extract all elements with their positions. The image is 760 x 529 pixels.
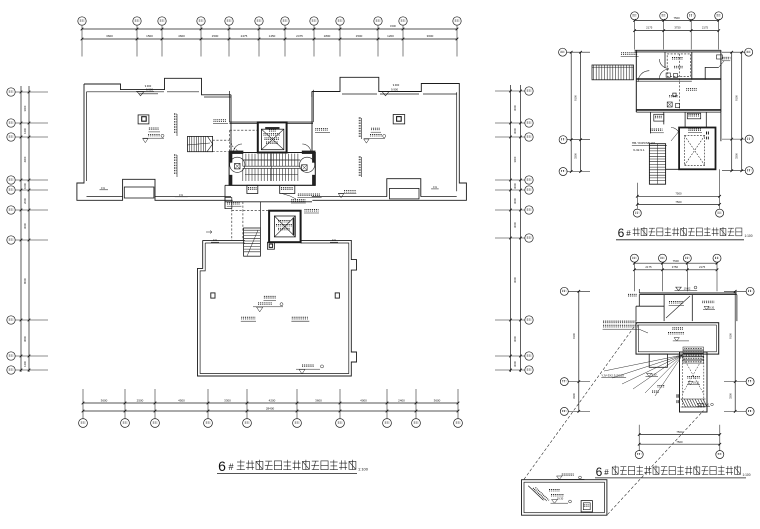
- svg-text:3000: 3000: [513, 277, 517, 283]
- svg-text:3600: 3600: [427, 34, 434, 38]
- plan3 top axis: [630, 254, 721, 291]
- riser label upper left wing: [174, 114, 177, 136]
- svg-text:1:100: 1:100: [745, 234, 753, 238]
- plan2 parapet and note: [621, 50, 721, 56]
- svg-text:3300: 3300: [572, 393, 576, 399]
- svg-text:3000: 3000: [513, 183, 517, 189]
- plan2 main walls: [636, 50, 721, 112]
- plan3 small room below slab: [649, 354, 667, 367]
- svg-text:3000: 3000: [513, 105, 517, 111]
- riser label upper right wing: [359, 118, 362, 139]
- plan3 main slab: [636, 323, 719, 354]
- svg-text:9.900: 9.900: [145, 84, 152, 88]
- svg-text:9100: 9100: [574, 95, 578, 101]
- plan2 interior stair: [649, 144, 679, 185]
- svg-text:HB-YD25/SB W1: HB-YD25/SB W1: [632, 141, 656, 145]
- cable notes right of core: [282, 194, 322, 214]
- plan3 bottom level note: [697, 403, 714, 406]
- svg-text:4500: 4500: [178, 398, 185, 402]
- plan2 right axis: [722, 48, 753, 175]
- svg-text:3000: 3000: [513, 336, 517, 342]
- plan2 title: [616, 226, 753, 240]
- svg-text:7500: 7500: [673, 16, 680, 20]
- plan2 lower elevator shaft: [679, 128, 715, 170]
- detail level note: [549, 490, 571, 504]
- svg-text:1:100: 1:100: [743, 473, 751, 477]
- svg-text:3000: 3000: [513, 198, 517, 204]
- svg-text:1000: 1000: [23, 183, 27, 189]
- svg-text:9100: 9100: [572, 333, 576, 339]
- svg-text:1200: 1200: [387, 34, 394, 38]
- svg-text:9.900: 9.900: [391, 87, 398, 91]
- lower elevator shaft: [269, 211, 301, 243]
- plan2 bottom dims: [633, 169, 723, 217]
- svg-text:19.62: 19.62: [684, 286, 691, 290]
- pilasters: [211, 293, 340, 298]
- plan2 water tank room: [659, 54, 690, 79]
- core north walls: [229, 90, 313, 153]
- svg-text:2500: 2500: [137, 398, 144, 402]
- svg-text:19.30: 19.30: [703, 403, 710, 406]
- svg-text:6-32.9.1: 6-32.9.1: [633, 148, 645, 152]
- svg-text:3000: 3000: [23, 105, 27, 111]
- stair flights hatch: [243, 154, 300, 181]
- svg-text:1450: 1450: [269, 34, 276, 38]
- roof level marker left wing: [136, 84, 158, 96]
- smoke detectors in stairwell: [230, 157, 315, 172]
- top dimension values: [106, 24, 434, 38]
- plan3 left axis: [560, 287, 590, 415]
- plan3 callout stack: [683, 347, 704, 363]
- left axis bubbles and dimension chain: [7, 86, 48, 374]
- upper elevator shaft: [258, 122, 287, 152]
- svg-text:YJV-3X2.5 SC25: YJV-3X2.5 SC25: [601, 373, 624, 377]
- svg-text:3000: 3000: [513, 128, 517, 134]
- svg-text:1500: 1500: [146, 34, 153, 38]
- svg-text:3600: 3600: [315, 398, 322, 402]
- svg-text:3000: 3000: [513, 361, 517, 367]
- svg-text:2175: 2175: [646, 26, 653, 30]
- level note right wing bottom: [338, 191, 356, 198]
- svg-text:4600: 4600: [178, 34, 185, 38]
- svg-text:#: #: [604, 468, 609, 477]
- dashed connectors to lower roof: [232, 202, 269, 241]
- detail box frame: [522, 480, 607, 516]
- roof drain right wing: [393, 115, 405, 124]
- level note left wing: [143, 128, 164, 143]
- svg-text:9.900: 9.900: [393, 83, 400, 87]
- svg-text:28400: 28400: [266, 406, 275, 410]
- plan2 cable label: [632, 141, 667, 152]
- svg-text:1500: 1500: [356, 34, 363, 38]
- top axis line and grid bubbles: [78, 17, 461, 57]
- svg-text:6: 6: [218, 458, 226, 474]
- svg-text:7500: 7500: [675, 192, 682, 196]
- rooms below stairwell: [225, 185, 315, 208]
- left wing outline: [77, 78, 233, 200]
- svg-text:19.30: 19.30: [557, 496, 564, 500]
- note left of core: [227, 202, 242, 206]
- plan3 wing level note: [687, 377, 700, 385]
- roof level marker right wing: [381, 83, 400, 96]
- plan3 title: [595, 465, 751, 479]
- right axis bubbles and dimension chain: [495, 85, 533, 374]
- svg-text:19.30: 19.30: [708, 306, 715, 309]
- svg-text:7500: 7500: [676, 440, 683, 444]
- svg-text:2400: 2400: [398, 398, 405, 402]
- machine-room roof outline: [198, 240, 357, 376]
- roof drain left wing: [138, 115, 149, 124]
- plan3 bottom dims: [635, 425, 724, 459]
- svg-text:3000: 3000: [23, 223, 27, 229]
- plan3 upper rooms: [636, 295, 737, 322]
- right wing outline: [312, 77, 467, 200]
- svg-text:3750: 3750: [672, 265, 679, 269]
- svg-text:8000: 8000: [23, 278, 27, 284]
- plan3 right axis: [724, 287, 754, 415]
- svg-text:1:100: 1:100: [358, 467, 369, 472]
- detail duct with slanted label: [528, 486, 549, 501]
- svg-text:6: 6: [596, 465, 603, 479]
- riser label lower right wing: [359, 157, 362, 177]
- svg-text:1800: 1800: [324, 34, 331, 38]
- stair to lower roof: [206, 228, 260, 256]
- roof access stair left wing: [187, 136, 213, 151]
- bottom axis bubbles and dimension chain: [79, 389, 463, 427]
- svg-text:3000: 3000: [513, 156, 517, 162]
- plan2 top axis: [631, 12, 723, 50]
- svg-text:#: #: [228, 462, 233, 472]
- stairwell walls: [229, 151, 315, 186]
- stairwell door swings: [231, 141, 311, 153]
- slope note right wing: [431, 185, 439, 189]
- plan3 leader fan: [601, 355, 682, 396]
- svg-text:3600: 3600: [434, 398, 441, 402]
- plan3 wing hatch strip: [677, 396, 708, 407]
- plan2 annotations: [650, 128, 702, 142]
- detail device box: [581, 501, 592, 512]
- svg-text:3000: 3000: [513, 222, 517, 228]
- svg-text:3300: 3300: [729, 393, 733, 399]
- svg-text:1400: 1400: [23, 361, 27, 367]
- svg-text:3600: 3600: [101, 398, 108, 402]
- svg-text:1400: 1400: [23, 128, 27, 134]
- detail top level note: [556, 474, 585, 479]
- plan2 fan room: [705, 55, 730, 80]
- svg-text:2175: 2175: [645, 265, 652, 269]
- svg-text:4300: 4300: [23, 156, 27, 162]
- detail reference dashed lines: [524, 323, 704, 515]
- zone labels lower roof: [241, 317, 309, 321]
- plan3 top level marker: [675, 286, 698, 290]
- svg-text:9100: 9100: [735, 95, 739, 101]
- svg-text:2175: 2175: [699, 265, 706, 269]
- slope notes left wing: [100, 186, 188, 197]
- svg-text:3600: 3600: [23, 336, 27, 342]
- riser label lower left wing: [174, 155, 177, 177]
- svg-text:2475: 2475: [296, 34, 303, 38]
- svg-text:7500: 7500: [675, 200, 682, 204]
- svg-text:2475: 2475: [241, 34, 248, 38]
- plan3 parapet: [628, 289, 737, 296]
- plan3 left leader note: [603, 321, 648, 333]
- svg-text:7500: 7500: [673, 259, 680, 263]
- svg-text:3300: 3300: [224, 398, 231, 402]
- svg-text:3300: 3300: [574, 153, 578, 159]
- drain beside lower elevator: [267, 242, 274, 249]
- svg-text:9.30: 9.30: [652, 373, 657, 376]
- main plan title: [217, 458, 369, 474]
- plan2 lobby rooms: [650, 112, 721, 141]
- svg-text:1500: 1500: [212, 34, 219, 38]
- svg-text:3750: 3750: [674, 26, 681, 30]
- level note lower roof bottom: [296, 365, 324, 374]
- plan3 right wing: [680, 352, 708, 412]
- svg-text:4000: 4000: [360, 398, 367, 402]
- svg-text:4200: 4200: [269, 398, 276, 402]
- plan3 mid level notes: [646, 373, 665, 392]
- svg-text:#: #: [626, 229, 631, 238]
- plan2 elevator machine room devices: [638, 54, 697, 110]
- svg-text:9100: 9100: [729, 333, 733, 339]
- plan2 left axis: [559, 48, 590, 175]
- zone note right wing: [315, 129, 330, 133]
- dashed detection zone line: [230, 130, 258, 152]
- svg-text:3300: 3300: [735, 153, 739, 159]
- roof level note centre: [253, 296, 283, 312]
- svg-text:6: 6: [618, 226, 625, 240]
- slope notes lower roof: [211, 238, 338, 242]
- level note right wing: [364, 128, 386, 143]
- dashed link and note left wing: [213, 120, 231, 152]
- svg-text:3600: 3600: [106, 34, 113, 38]
- svg-text:19.30: 19.30: [693, 381, 700, 384]
- plan2 escape stair: [592, 65, 634, 80]
- svg-text:2175: 2175: [702, 26, 709, 30]
- svg-text:2000: 2000: [23, 198, 27, 204]
- svg-text:1500: 1500: [390, 24, 396, 28]
